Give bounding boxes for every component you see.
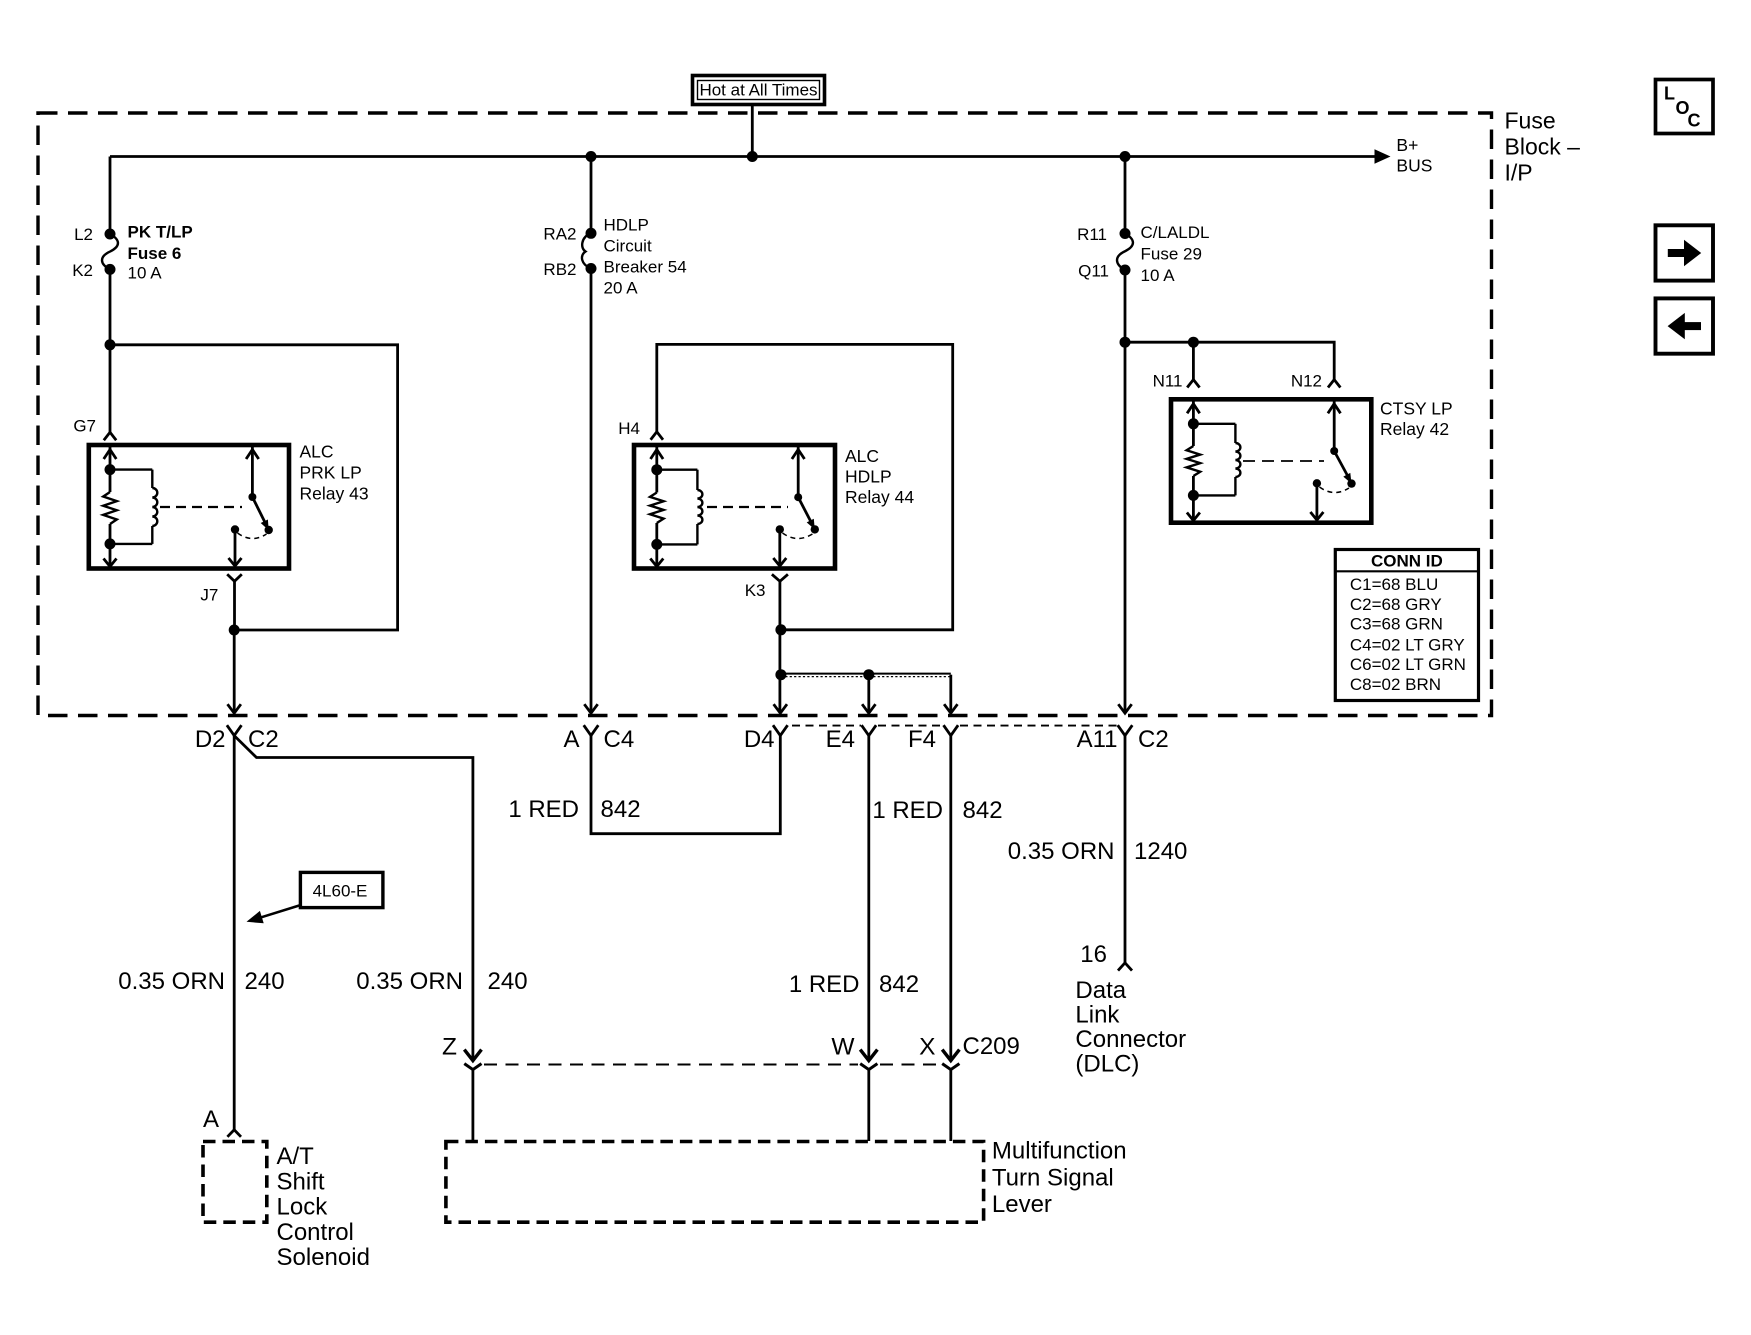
svg-text:Circuit: Circuit xyxy=(604,237,652,256)
svg-text:842: 842 xyxy=(879,971,919,998)
multifunction turn signal lever box xyxy=(446,1142,984,1223)
connector D4 xyxy=(744,725,788,753)
svg-text:842: 842 xyxy=(963,797,1003,824)
label B+ BUS xyxy=(1396,135,1432,175)
svg-text:L2: L2 xyxy=(74,225,93,244)
svg-text:A/T: A/T xyxy=(277,1143,315,1170)
relay 43 switch arm tip node xyxy=(265,526,273,534)
label A/T Shift Lock Control Solenoid xyxy=(277,1143,370,1271)
svg-text:ALC: ALC xyxy=(845,446,879,466)
label 1 RED 842 (A-D4 wire) xyxy=(508,796,640,823)
svg-text:Link: Link xyxy=(1075,1002,1120,1029)
terminal L2 xyxy=(74,225,115,244)
terminal K2 xyxy=(72,261,115,280)
svg-text:0.35 ORN: 0.35 ORN xyxy=(118,968,225,995)
fuse F29 C/LALDL 10A xyxy=(1117,223,1209,285)
connector pin G7 xyxy=(73,417,116,441)
svg-text:Relay 43: Relay 43 xyxy=(300,484,369,504)
label 0.35 ORN 1240 xyxy=(1008,838,1188,865)
svg-text:C2: C2 xyxy=(1138,726,1169,753)
relay 42 actuate dashed link xyxy=(1243,460,1324,462)
svg-text:C1=68 BLU: C1=68 BLU xyxy=(1350,575,1438,594)
wire: pin A (C4) loop to pin D4 xyxy=(591,736,780,834)
wire: splice down to border xyxy=(228,630,241,713)
connector pin K3 xyxy=(745,574,788,600)
relay 44 switch common pin arrow xyxy=(792,447,805,497)
svg-text:16: 16 xyxy=(1080,941,1107,968)
relay 42 coil top node xyxy=(1188,418,1199,429)
A/T shift lock control solenoid box xyxy=(203,1142,267,1223)
svg-text:Fuse 6: Fuse 6 xyxy=(128,244,182,263)
relay 43 actuate dashed link xyxy=(160,506,242,508)
wire: J7 down to splice xyxy=(233,581,236,630)
relay K42 box xyxy=(1171,399,1371,522)
CONN ID table xyxy=(1335,550,1478,701)
svg-text:(DLC): (DLC) xyxy=(1075,1051,1139,1078)
svg-text:E4: E4 xyxy=(826,726,855,753)
relay 42 output pin arrow xyxy=(1310,483,1323,520)
relay 44 switch arm tip node xyxy=(811,525,819,533)
svg-text:D2: D2 xyxy=(195,726,226,753)
label Fuse Block - I/P xyxy=(1505,108,1581,186)
relay 42 coil pin arrow (top left) xyxy=(1187,401,1200,424)
relay 44 actuate dashed link xyxy=(707,506,788,508)
relay 42 switch contact xyxy=(1313,479,1321,487)
relay 42 resistor xyxy=(1187,424,1201,496)
relay 43 switch contact xyxy=(231,525,239,533)
wire: branch to E4 and F4 xyxy=(781,674,958,714)
relay 44 coil pin arrow (bottom left) xyxy=(650,544,663,566)
svg-text:PRK LP: PRK LP xyxy=(300,463,362,483)
wire: loop around relay 44 to K3 node xyxy=(657,344,953,629)
connector D2 (C2) xyxy=(195,725,279,753)
relay 42 switch arm xyxy=(1334,451,1351,484)
wire: X to multifunction lever xyxy=(949,1070,952,1141)
relay 42 coil pin arrow (bottom left) xyxy=(1187,495,1200,520)
left arrow icon xyxy=(1656,298,1714,353)
wire: RB2 down to border (pin A) xyxy=(584,269,597,714)
connector pin N11 xyxy=(1153,372,1200,391)
svg-text:C2=68 GRY: C2=68 GRY xyxy=(1350,595,1442,614)
wire: splice down to border (pin E4) xyxy=(862,675,875,714)
svg-text:Breaker 54: Breaker 54 xyxy=(604,258,687,277)
svg-text:C/LALDL: C/LALDL xyxy=(1141,223,1210,242)
relay 43 switch pivot xyxy=(248,493,256,501)
svg-text:R11: R11 xyxy=(1077,225,1107,244)
relay K44 box xyxy=(634,445,835,569)
wire: bus down to breaker terminal RA2 xyxy=(590,157,593,234)
relay 44 output pin arrow xyxy=(773,529,786,566)
svg-text:HDLP: HDLP xyxy=(845,467,892,487)
relay 43 coil pin arrow (top left) xyxy=(104,447,117,470)
svg-text:G7: G7 xyxy=(73,417,96,436)
svg-text:Fuse: Fuse xyxy=(1505,108,1556,134)
svg-text:1 RED: 1 RED xyxy=(789,971,860,998)
svg-text:Turn Signal: Turn Signal xyxy=(992,1164,1114,1191)
fuse F6 PK T/LP 10A xyxy=(102,223,193,283)
svg-text:C209: C209 xyxy=(963,1033,1020,1060)
svg-text:K3: K3 xyxy=(745,581,766,600)
connector pin J7 xyxy=(200,574,241,604)
relay 42 label CTSY LP Relay 42 xyxy=(1380,399,1453,440)
right arrow icon xyxy=(1656,225,1714,280)
junction: E4 branch splice xyxy=(863,669,874,680)
connector pin N12 xyxy=(1291,372,1341,391)
svg-text:842: 842 xyxy=(601,796,641,823)
svg-text:Z: Z xyxy=(442,1034,457,1061)
fuse block I/P dashed border xyxy=(38,113,1492,716)
wire: D2 to A/T shift lock solenoid xyxy=(233,736,236,1130)
junction: bus to Hot stub xyxy=(747,151,758,162)
svg-text:I/P: I/P xyxy=(1505,160,1533,186)
junction: K3 / loop splice xyxy=(775,624,786,635)
wire: K2 to splice xyxy=(109,269,112,344)
terminal Q11 xyxy=(1078,262,1130,281)
wire: Q11 down to splice xyxy=(1124,270,1127,342)
svg-text:J7: J7 xyxy=(200,585,218,604)
svg-text:Shift: Shift xyxy=(277,1168,325,1195)
label 0.35 ORN 240 (left) xyxy=(118,968,284,995)
svg-text:Lever: Lever xyxy=(992,1191,1052,1218)
relay 44 coil top node xyxy=(651,464,662,475)
label 1 RED 842 (F4 wire) xyxy=(872,797,1002,824)
relay 42 coil winding xyxy=(1193,424,1240,496)
relay 44 coil winding xyxy=(657,470,703,545)
svg-text:Relay 42: Relay 42 xyxy=(1380,419,1449,439)
splice: fuse 6 output xyxy=(105,339,116,350)
svg-text:A: A xyxy=(203,1106,219,1133)
relay 42 switch pivot xyxy=(1330,447,1338,455)
relay 42 coil bottom node xyxy=(1188,490,1199,501)
svg-text:HDLP: HDLP xyxy=(604,216,649,235)
svg-text:C4: C4 xyxy=(604,726,635,753)
wire: K3 down through splices to border (pin D4) xyxy=(774,581,787,713)
svg-text:N11: N11 xyxy=(1153,372,1183,391)
junction: K3 / E4-F4 branch splice xyxy=(775,669,786,680)
relay 44 resistor xyxy=(650,470,664,545)
inline connector W (C209) xyxy=(831,1034,877,1070)
svg-text:A: A xyxy=(563,726,579,753)
svg-text:ALC: ALC xyxy=(300,442,334,462)
relay 43 throw dashed arc xyxy=(238,533,267,539)
relay 43 switch common pin arrow xyxy=(246,447,259,497)
svg-text:RB2: RB2 xyxy=(543,260,576,279)
terminal RA2 xyxy=(543,225,596,244)
wire: pin F4 to X xyxy=(949,736,952,1060)
svg-text:4L60-E: 4L60-E xyxy=(313,882,368,901)
svg-text:10 A: 10 A xyxy=(1141,266,1176,285)
svg-text:BUS: BUS xyxy=(1396,155,1432,175)
connector A (C4) xyxy=(563,725,634,753)
wire: B+ bus xyxy=(110,155,1379,158)
relay 44 switch arm xyxy=(798,497,815,529)
junction: bus to C/LALDL fuse xyxy=(1120,151,1131,162)
relay 43 switch arm xyxy=(252,497,268,530)
svg-text:C2: C2 xyxy=(248,726,279,753)
connector C2 dashed extent line xyxy=(792,725,1117,727)
wire: fuse 29 splice down to border (pin A11) xyxy=(1118,342,1131,713)
relay 44 coil pin arrow (top left) xyxy=(651,447,664,470)
svg-text:C4=02 LT GRY: C4=02 LT GRY xyxy=(1350,635,1465,654)
svg-text:L: L xyxy=(1664,84,1675,104)
relay 43 coil pin arrow (bottom left) xyxy=(104,544,117,567)
LOC icon xyxy=(1656,80,1714,134)
wire: Hot at All Times stub to B+ bus xyxy=(751,105,754,157)
relay K43 box xyxy=(89,445,289,569)
wire: D2 branch to Z xyxy=(234,736,473,1060)
svg-text:W: W xyxy=(831,1034,855,1061)
label 0.35 ORN 240 (branch) xyxy=(356,968,527,995)
relay 43 coil winding xyxy=(110,470,157,544)
4L60-E callout box xyxy=(247,872,383,923)
svg-text:240: 240 xyxy=(245,968,285,995)
junction: N11 branch xyxy=(1188,337,1199,348)
relay 43 output pin arrow xyxy=(229,530,242,567)
svg-text:X: X xyxy=(919,1034,935,1061)
relay 44 throw dashed arc xyxy=(783,533,813,539)
svg-text:Q11: Q11 xyxy=(1078,262,1109,281)
svg-text:RA2: RA2 xyxy=(543,225,576,244)
relay 43 coil bottom node xyxy=(105,538,116,549)
wire: bus down to fuse F6 terminal L2 xyxy=(109,157,112,235)
splice: fuse 29 output xyxy=(1120,337,1131,348)
C209 dashed inline connector line xyxy=(484,1064,941,1066)
DLC terminal 16 xyxy=(1080,941,1132,971)
terminal RB2 xyxy=(543,260,596,279)
svg-text:Block –: Block – xyxy=(1505,134,1581,160)
relay 44 coil bottom node xyxy=(651,539,662,550)
terminal R11 xyxy=(1077,225,1130,244)
svg-text:N12: N12 xyxy=(1291,372,1322,391)
relay 43 label ALC PRK LP Relay 43 xyxy=(300,442,369,504)
relay 44 switch contact xyxy=(776,525,784,533)
svg-text:CONN ID: CONN ID xyxy=(1371,552,1443,571)
connector pin H4 xyxy=(618,419,663,440)
Hot at All Times box xyxy=(693,76,825,105)
label 1 RED 842 (E4 wire) xyxy=(789,971,919,998)
connector A at solenoid xyxy=(203,1106,241,1137)
inline connector X (C209) xyxy=(919,1033,1020,1070)
relay 44 switch pivot xyxy=(794,493,802,501)
svg-text:0.35 ORN: 0.35 ORN xyxy=(356,968,463,995)
svg-text:Data: Data xyxy=(1075,977,1126,1004)
label Multifunction Turn Signal Lever xyxy=(992,1138,1127,1219)
svg-text:Connector: Connector xyxy=(1075,1026,1186,1053)
relay 43 resistor xyxy=(103,470,117,544)
relay 42 switch arm tip node xyxy=(1347,479,1355,487)
svg-text:Relay 44: Relay 44 xyxy=(845,487,914,507)
svg-text:F4: F4 xyxy=(908,726,936,753)
svg-text:Solenoid: Solenoid xyxy=(277,1244,370,1271)
svg-text:C6=02 LT GRN: C6=02 LT GRN xyxy=(1350,655,1466,674)
label Data Link Connector (DLC) xyxy=(1075,977,1186,1078)
svg-text:C3=68 GRN: C3=68 GRN xyxy=(1350,615,1443,634)
circuit breaker 54 symbol xyxy=(582,216,687,298)
svg-text:H4: H4 xyxy=(618,419,640,438)
svg-text:C: C xyxy=(1688,111,1701,131)
relay 44 label ALC HDLP Relay 44 xyxy=(845,446,914,507)
svg-text:1 RED: 1 RED xyxy=(508,796,579,823)
wire: W to multifunction lever xyxy=(867,1070,870,1141)
connector E4 xyxy=(826,725,876,753)
wire: splice to relay 42 pins N11 N12 xyxy=(1125,342,1334,379)
svg-text:Fuse 29: Fuse 29 xyxy=(1141,245,1202,264)
svg-text:Lock: Lock xyxy=(277,1194,329,1221)
svg-text:1 RED: 1 RED xyxy=(872,797,943,824)
inline connector Z (C209) xyxy=(442,1034,481,1070)
wire: splice to pin G7 xyxy=(109,345,112,433)
svg-text:0.35 ORN: 0.35 ORN xyxy=(1008,838,1115,865)
wire: Z to multifunction lever xyxy=(471,1070,474,1141)
relay 42 switch common pin arrow xyxy=(1328,401,1341,451)
relay 42 throw dashed arc xyxy=(1320,487,1350,493)
B+ bus arrowhead xyxy=(1375,149,1391,163)
wire: pin A11 to DLC xyxy=(1124,736,1127,963)
svg-text:B+: B+ xyxy=(1396,135,1418,155)
relay 43 coil top node xyxy=(105,464,116,475)
wire: bus down to fuse F29 terminal R11 xyxy=(1124,157,1127,234)
svg-text:K2: K2 xyxy=(72,261,93,280)
svg-text:1240: 1240 xyxy=(1134,838,1187,865)
svg-text:C8=02 BRN: C8=02 BRN xyxy=(1350,675,1441,694)
svg-text:PK T/LP: PK T/LP xyxy=(128,223,193,242)
junction: bus to HDLP breaker xyxy=(586,151,597,162)
svg-text:D4: D4 xyxy=(744,726,775,753)
wire: pin E4 to W xyxy=(867,736,870,1060)
svg-text:10 A: 10 A xyxy=(128,264,163,283)
svg-text:240: 240 xyxy=(488,968,528,995)
junction: J7 / loop splice xyxy=(229,625,240,636)
connector F4 xyxy=(908,725,958,753)
svg-text:Multifunction: Multifunction xyxy=(992,1138,1127,1165)
svg-text:CTSY LP: CTSY LP xyxy=(1380,399,1453,419)
svg-text:Control: Control xyxy=(277,1219,354,1246)
connector A11 (C2) xyxy=(1077,725,1169,753)
svg-text:20 A: 20 A xyxy=(604,279,639,298)
svg-text:Hot at All Times: Hot at All Times xyxy=(699,81,817,100)
wire: loop around relay 43 to J7 node xyxy=(110,345,398,630)
svg-text:A11: A11 xyxy=(1077,726,1118,753)
